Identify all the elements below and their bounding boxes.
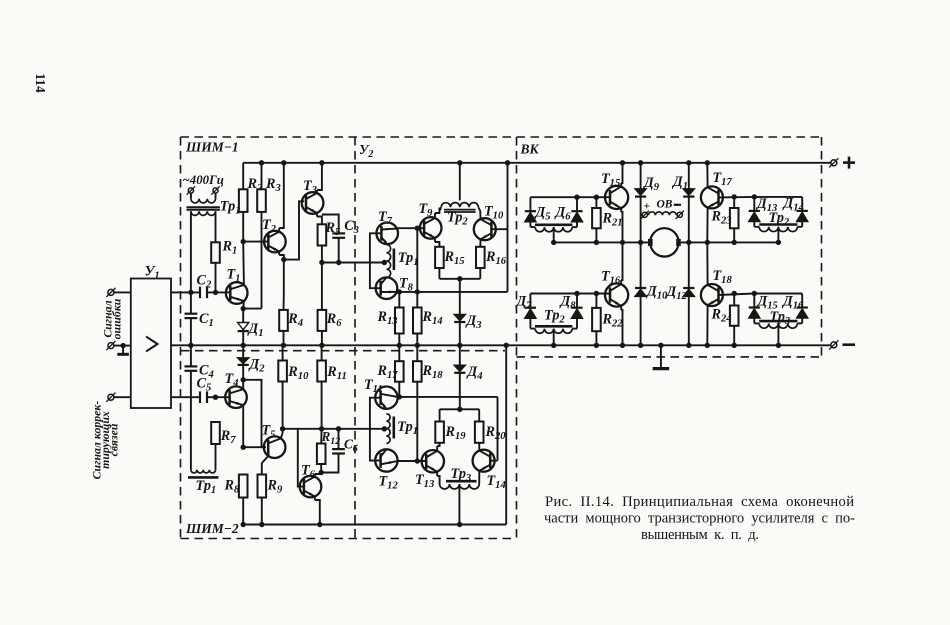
svg-text:ВК: ВК [520,142,540,157]
wire Tr1 left leg [190,211,192,292]
node Tr2 tap rail [457,160,462,165]
svg-text:Д2: Д2 [248,357,266,375]
label R13 [377,309,399,327]
svg-text:Д1: Д1 [247,321,264,339]
resistor R11 [317,361,326,382]
label D4 [466,364,483,382]
node T4 collector junction [241,377,246,382]
wire T18 collector [706,242,708,285]
svg-text:Д14: Д14 [782,196,804,214]
node R23 top [732,194,737,199]
label D16 [781,294,804,312]
transformer winding upper-left quad [530,225,577,243]
label D6 [554,205,572,223]
label D13 [755,196,778,214]
dashed border VK right edge [821,137,823,357]
label T18 [713,268,733,286]
diode D16 [797,294,808,324]
svg-text:Д4: Д4 [466,364,483,382]
diode D13 [749,197,760,227]
node R11 bottom [319,426,324,431]
label R9 [267,478,283,496]
wire T18 base [719,294,755,296]
node T17 collector rail [705,160,710,165]
wire T4 emitter [242,405,244,447]
wire R12 top [320,429,322,444]
wire T11 collector line [397,396,497,398]
wire R3 bottom to T1 emitter [243,212,261,309]
label C1 [199,311,214,329]
dashed border VK bottom edge [517,356,822,358]
transformer Tr3 (U2 lower) [440,481,480,524]
caption line 3 [641,527,759,543]
node T18 emitter rail [705,343,710,348]
wire T3 emitter [317,213,322,225]
block label SHIM-1 [185,140,239,155]
wire T11 base loop [370,398,376,461]
svg-text:ОВ: ОВ [657,199,673,211]
svg-text:T13: T13 [415,472,435,490]
wire R12 bottom [320,464,322,473]
label R19 [445,424,467,442]
svg-text:Тр1: Тр1 [397,419,418,437]
label T16 [601,269,621,287]
node R12 bottom [319,470,324,475]
node input2 ground tap [120,343,125,348]
wire R4 bottom [283,331,285,345]
resistor R6 [318,310,327,331]
label Tr3 lower-right [770,309,791,327]
label signal oshibki [101,298,124,339]
node T3 collector top [319,160,324,165]
resistor R16 [476,247,485,268]
node winding tap left [551,240,556,245]
caption line 2 [544,511,855,527]
node D1 rail [241,343,246,348]
transformer Tr1 (U2 upper) [387,245,394,278]
resistor R23 [730,208,739,228]
node R22 rail [594,343,599,348]
svg-text:связей: связей [107,423,121,456]
wire R2 top to rail [242,163,244,190]
resistor R13 [395,308,404,334]
resistor R24 [730,306,739,326]
resistor R19 [435,422,444,443]
label T4 [225,371,239,389]
node R9 rail [259,522,264,527]
wire T9 emitter [435,238,439,247]
label R12 [321,429,341,447]
wire T9 base [417,227,424,229]
wire R24 leads [733,294,735,346]
transistor T14 [473,450,495,472]
label R20 [485,424,507,442]
diode D6 [571,197,582,227]
node winding tap lower-right [776,343,781,348]
label R8 [224,478,240,496]
wire to U2 upper transformer [322,262,384,264]
motor armature [648,228,681,256]
node C2 left [188,290,193,295]
wire R19 R20 tops [440,409,480,421]
dashed border between U2 and VK [516,137,518,539]
diode D1 (VK) [683,163,694,243]
wire R6 bottom [321,331,323,345]
svg-text:Тр3: Тр3 [451,466,472,484]
capacitor C2 [200,287,207,299]
svg-text:T9: T9 [419,201,434,219]
label Tr1 input [220,199,241,217]
wire T4 collector to T5 base loop [243,380,266,447]
diode D3 [454,314,465,322]
svg-text:R15: R15 [444,249,466,267]
transistor T7 [376,223,398,245]
page number 114 [33,73,48,93]
svg-text:~400Гц: ~400Гц [183,173,224,187]
node R17 bottom [397,394,402,399]
resistor R3 [257,189,266,212]
wire R17 leads [398,345,400,397]
svg-text:R16: R16 [485,249,507,267]
wire middle common rail [171,344,831,346]
svg-text:Тр2: Тр2 [544,308,565,326]
svg-text:R7: R7 [220,428,236,446]
wire U1 out3 to C5 [171,396,200,398]
svg-text:вышенным к. п. д.: вышенным к. п. д. [641,527,759,543]
node R8 top [241,445,246,450]
wire T1 collector [242,242,245,285]
svg-text:T5: T5 [262,423,277,441]
node T15 collector rail [620,160,625,165]
label C6 [344,437,359,455]
svg-text:T3: T3 [303,178,318,196]
svg-text:T4: T4 [225,371,239,389]
label C4 [199,363,214,381]
wire R6 top [321,263,323,310]
block label VK [520,142,540,157]
node T15 emitter motor line [620,240,625,245]
label D1 VK [671,174,688,192]
resistor R17 [395,361,404,382]
label minus OV [674,204,681,206]
label T1 [227,267,241,285]
svg-text:R19: R19 [445,424,467,442]
node R7 top [213,395,218,400]
node R13 top [397,289,402,294]
diode D7 [525,294,536,329]
wire T7 collector [397,227,418,229]
dashed border between SHIM and U2 [354,137,356,539]
label R4 [287,311,303,329]
wire C5 to T4 base [207,396,230,398]
label D2 [248,357,266,375]
label R24 [711,307,732,325]
svg-text:C1: C1 [199,311,214,329]
node R21 top [594,195,599,200]
svg-text:T12: T12 [379,474,399,492]
resistor R10 [278,361,287,382]
node R22 top [594,291,599,296]
wire T17 collector [706,163,708,188]
wire T9 collector [435,208,439,219]
wire T5 emitter [262,456,269,475]
node R19 R20 feed [457,407,462,412]
svg-text:Д12: Д12 [665,284,688,302]
input terminal 2 [106,341,115,350]
wire inner loop right [497,397,499,461]
capacitor C3 [332,233,345,237]
transistor T18 [701,284,723,306]
label T10 [484,204,504,222]
wire T10 emitter [479,239,481,247]
wire C3 top branch [322,215,339,234]
wire R11 top [321,345,323,360]
label D15 [756,294,779,312]
wire R10 bottom [282,382,284,429]
svg-text:T18: T18 [713,268,733,286]
svg-text:T17: T17 [713,170,733,188]
wire T15 base line [530,196,610,198]
label D9 [642,175,660,193]
wire input2 to U1 [114,345,131,347]
svg-text:Д9: Д9 [642,175,660,193]
node R3 top [259,160,264,165]
svg-text:R11: R11 [326,364,346,382]
label R1 [222,239,238,257]
label R14 [422,309,443,327]
label T6 [301,463,316,481]
wire T6 collector [315,473,321,477]
wire lower-right quad top [754,293,802,295]
node R5 bottom [319,260,324,265]
svg-text:C3: C3 [344,218,359,236]
wire T16 base line [530,293,610,295]
node D12 rail [686,343,691,348]
wire D1 to rail [242,331,244,345]
node R18 bottom [415,458,420,463]
node D10 rail [638,343,643,348]
label R3 [265,176,281,194]
label T8 [399,276,414,294]
diode D5 [525,197,536,227]
wire T12 emitter line [397,460,426,462]
transformer winding lower-left quad [530,326,577,345]
svg-text:Рис. II.14. Принципиальная: Рис. II.14. Принципиальная схема оконечн… [545,494,854,510]
diode D14 [797,197,808,227]
svg-text:Д1: Д1 [671,174,688,192]
wire T10 collector [479,211,481,219]
svg-text:R24: R24 [711,307,732,325]
svg-text:ШИМ−1: ШИМ−1 [185,140,239,155]
wire T2 base [243,241,268,243]
wire D4 bottom [459,373,461,410]
transformer Tr2 (U2 push-pull) [439,163,480,212]
label R16 [485,249,507,267]
block label U2 [359,142,373,160]
label D1 [247,321,264,339]
svg-text:Тр1: Тр1 [398,250,419,268]
svg-text:Д6: Д6 [554,205,572,223]
wire R11 bottom [321,382,323,429]
dashed border PWM/U2/VK top edge [181,136,822,138]
label R7 [220,428,236,446]
wire R14 leads [416,228,418,345]
wire R5 bottom [321,246,323,263]
wire T13 collector [437,443,439,451]
field winding OV [641,211,684,219]
transistor T1 [226,282,248,304]
transistor T15 [605,186,628,209]
node VK feed rail [505,160,510,165]
label R2 [247,176,263,194]
wire R2 bottom [242,212,244,242]
label R17 [377,363,399,381]
wire T8 emitter line [397,291,508,293]
svg-text:T2: T2 [262,217,277,235]
diode D1 [238,323,249,332]
wire T17 base [719,196,755,199]
label R23 [711,209,733,227]
resistor R22 [592,308,601,331]
node R8 rail [241,522,246,527]
wire T7 base loop [370,233,377,288]
node drive into Tr1 lower [382,426,387,431]
wire T14 collector [478,443,480,451]
svg-text:C2: C2 [197,273,212,291]
svg-text:T10: T10 [484,204,504,222]
svg-text:R21: R21 [602,211,623,229]
capacitor C5 [200,391,207,403]
label D12 [665,284,688,302]
wire R18 leads [416,345,418,461]
node T16 emitter rail [620,343,625,348]
wire T17 emitter [706,207,708,242]
block label SHIM-2 [185,521,239,536]
node R4 bottom rail [281,343,286,348]
resistor R4 [279,310,288,331]
node D3 top [457,276,462,281]
wire Tr1 right leg [215,211,217,242]
wire T13 emitter [437,472,439,484]
ground symbol [653,345,670,368]
chevron inside U1 [146,337,158,352]
transformer Tr1 (400Hz input) [187,193,220,215]
resistor R15 [435,247,444,268]
node winding tap lower-left [551,343,556,348]
label T14 [487,473,506,491]
wire T4 collector [242,380,244,389]
label T15 [601,171,621,189]
label R18 [422,363,444,381]
resistor R18 [413,361,422,382]
svg-text:Тр1: Тр1 [196,478,217,496]
node R21 bottom [594,240,599,245]
wire VK feed vertical [507,163,509,292]
label T7 [378,209,393,227]
wire T14 base [490,460,497,462]
label D7 [515,294,533,312]
transistor T3 [302,192,324,214]
capacitor C1 [185,292,198,345]
capacitor C6 [321,429,345,473]
node T1 emitter junction [241,306,246,311]
diode D12 [683,242,694,345]
transistor T10 [474,218,496,240]
node D6 top [574,195,579,200]
wire C3 bottom [338,238,340,263]
wire T3 collector [317,163,322,193]
transformer Tr1 (U2 lower) [386,414,393,444]
resistor R5 [318,224,327,245]
dashed border SHIM-2 top edge [181,350,505,352]
svg-text:Д10: Д10 [645,284,668,302]
diode D8 [571,294,582,329]
node R1 bottom [213,290,218,295]
input terminal 3 [106,393,115,402]
wire T2 emitter [279,252,284,260]
svg-text:T11: T11 [364,377,383,395]
wire R9 bottom [261,498,263,525]
node D9 rail [638,160,643,165]
node D9 motor line [638,240,643,245]
label OV [657,199,673,211]
transformer Tr1 (lower feedback) [188,470,218,478]
label D5 [534,205,552,223]
svg-text:ошибки: ошибки [110,298,124,339]
label T2 [262,217,277,235]
label C2 [197,273,212,291]
wire motor left line [554,241,649,243]
svg-text:R8: R8 [224,478,240,496]
node outer return rail [504,343,509,348]
wire to D3 [459,279,461,315]
wire T15 collector [621,163,622,187]
transformer Tr1 input terminals [187,186,220,194]
node D8 top [574,291,579,296]
wire bottom common rail [243,524,506,526]
wire T1 emitter to D1 [242,309,244,323]
node T9 base junction [415,226,420,231]
svg-text:ШИМ−2: ШИМ−2 [185,521,239,536]
svg-text:У1: У1 [145,264,160,282]
wire R8 bottom [242,498,244,525]
svg-text:R3: R3 [265,176,281,194]
wire R4 top [283,260,285,310]
node T2 collector top [281,160,286,165]
resistor R9 [258,475,267,498]
label R5 [325,220,341,238]
diode D2 [238,345,249,380]
svg-text:R10: R10 [287,364,309,382]
wire R7 bottom [215,444,217,470]
svg-text:У2: У2 [359,142,373,160]
label 400Hz [183,173,224,187]
label Tr2 upper-right [769,210,790,228]
diode D10 [635,242,646,345]
wire T16 emitter [621,306,622,346]
node R6 bottom rail [319,343,324,348]
svg-text:R1: R1 [222,239,238,257]
label T17 [713,170,733,188]
capacitor C4 [185,345,198,470]
node C3 bottom [336,260,341,265]
node D1 motor line [686,240,691,245]
svg-text:R22: R22 [602,312,624,330]
wire T2 emitter to T3 base [284,201,304,259]
label R10 [287,364,309,382]
svg-text:T1: T1 [227,267,241,285]
svg-text:Д8: Д8 [559,294,577,312]
